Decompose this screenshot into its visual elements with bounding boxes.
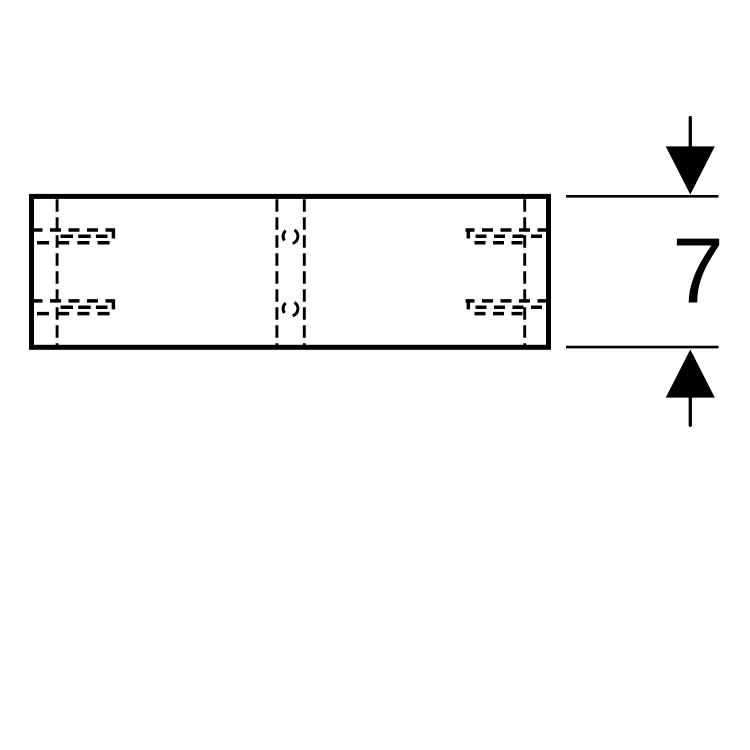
left top slot end tick [112,229,116,239]
left top slot hidden line B [61,235,108,239]
dimension arrow top head [666,146,715,194]
top hidden hole circle right arc [293,230,298,243]
right bottom slot hidden line B [468,305,542,309]
right top slot end tick [467,229,471,239]
dimension extension line bottom [566,346,719,349]
dimension arrow bottom shaft [689,394,692,425]
right bottom slot hidden line C [471,312,523,316]
top hidden hole circle left arc [283,231,286,241]
hidden edge vertical dashed line center-left [275,199,278,345]
bottom hidden hole circle left arc [283,303,286,313]
right bottom slot hidden line A [466,299,549,303]
body outline rectangle [32,196,549,347]
hidden edge vertical dashed line right [523,199,526,345]
left bottom slot hidden line A [32,299,115,303]
hidden edge vertical dashed line left [56,199,59,345]
dimension extension line top [566,195,719,198]
dimension arrow top shaft [689,118,692,150]
left bottom slot end tick [112,299,116,309]
bottom hidden hole circle right arc [293,302,298,315]
left top slot hidden line C [37,241,110,245]
left top slot hidden line A [32,228,115,232]
left bottom slot hidden line B [61,305,108,309]
left bottom slot hidden line C [37,312,110,316]
hidden edge vertical dashed line center-right [303,199,306,345]
right top slot hidden line C [471,241,523,245]
right top slot hidden line A [466,228,549,232]
svg-text:7: 7 [672,219,724,323]
right bottom slot end tick [467,299,471,309]
right top slot hidden line B [468,235,542,239]
dimension arrow bottom head [666,350,715,398]
